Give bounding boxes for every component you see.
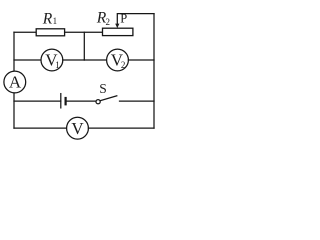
svg-text:R: R (42, 11, 53, 28)
resistor R2 (rheostat body) (103, 28, 133, 35)
wire left vertical bottom segment (13, 93, 15, 128)
wire switch to right vertical (120, 100, 155, 102)
svg-text:A: A (9, 73, 22, 92)
wire right vertical (153, 14, 155, 129)
svg-text:2: 2 (121, 60, 126, 70)
wire bottom row right (88, 127, 154, 129)
voltmeter V1 circle (41, 49, 63, 71)
voltmeter V circle (67, 117, 89, 139)
svg-text:1: 1 (53, 16, 58, 26)
wire junction to V2 (84, 59, 106, 61)
rheostat slider arrow (115, 24, 119, 29)
svg-text:S: S (99, 81, 107, 96)
wire junction vertical (83, 32, 85, 60)
svg-text:V: V (71, 119, 84, 138)
switch S pivot circle (96, 100, 100, 104)
wire top left (corner to R1) (14, 31, 36, 33)
wire slider to top-right corner (117, 14, 154, 24)
wire battery to switch (67, 100, 96, 102)
svg-text:P: P (120, 11, 127, 25)
svg-text:2: 2 (106, 17, 111, 27)
wire top middle (R1 to R2) (65, 31, 103, 33)
battery cell short thick plate (64, 98, 66, 104)
resistor R1 (36, 29, 64, 36)
battery cell long plate (60, 94, 62, 108)
wire left vertical top segment (13, 32, 15, 71)
wire bottom row left (corner to V) (14, 127, 67, 129)
wire battery row left (14, 100, 61, 102)
wire V2 to right vertical (128, 59, 154, 61)
wire V1 row left (14, 59, 41, 61)
switch S lever (100, 96, 117, 101)
svg-text:1: 1 (55, 60, 60, 70)
ammeter A circle (4, 71, 26, 93)
wire V1 to junction (63, 59, 85, 61)
voltmeter V2 circle (107, 49, 129, 71)
